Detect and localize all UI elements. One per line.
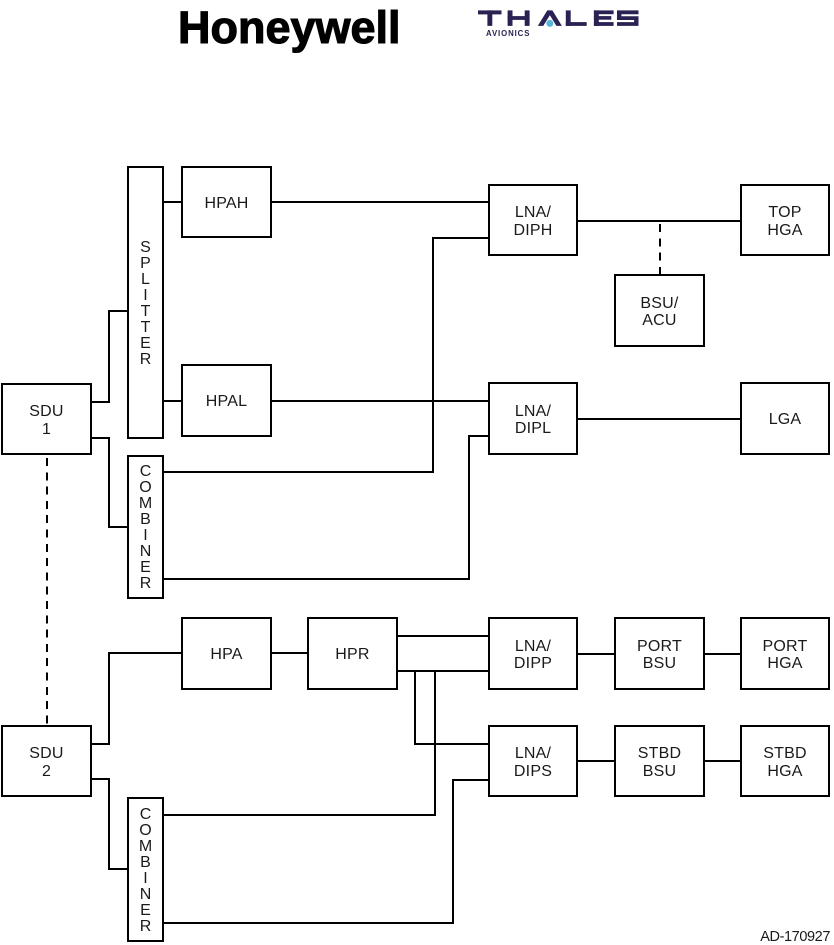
wire into LNA/DIPS lower xyxy=(452,779,488,781)
wire into LNA/DIPS upper xyxy=(414,743,488,745)
block HPR xyxy=(307,617,398,690)
wire COMBINER2 lower output xyxy=(164,922,454,924)
wire COMBINER1 lower output xyxy=(164,578,470,580)
wire PORT BSU to PORT HGA xyxy=(705,653,740,655)
wire into HPA left xyxy=(108,652,181,654)
wire LNA/DIPH to TOP HGA xyxy=(578,220,740,222)
wire into COMBINER1 left xyxy=(108,526,127,528)
wire SDU1 riser to SPLITTER xyxy=(108,310,110,402)
figure number AD-170927 xyxy=(760,930,830,945)
block SPLITTER xyxy=(127,166,164,439)
letter L xyxy=(566,10,571,26)
wire into COMBINER2 left xyxy=(108,868,127,870)
wire COMBINER1 lower riser xyxy=(468,435,470,581)
block HPA xyxy=(181,617,272,690)
wire SDU2 lower stub xyxy=(92,778,110,780)
dashed wire SDU1 to SDU2 xyxy=(46,458,48,725)
wire SDU2 riser to COMBINER2 xyxy=(108,778,110,870)
wire COMBINER2 upper output xyxy=(164,814,436,816)
wire HPR upper output to LNA/DIPP xyxy=(398,635,488,637)
wire SPLITTER to HPAH xyxy=(164,201,181,203)
wire COMBINER1 upper riser xyxy=(432,237,434,473)
wire LNA/DIPP to PORT BSU xyxy=(578,653,614,655)
block STBD BSU xyxy=(614,725,705,797)
dashed wire to BSU/ACU xyxy=(659,224,661,275)
wire SDU2 upper stub xyxy=(92,743,110,745)
letter S xyxy=(617,10,639,26)
wire SDU1 riser to COMBINER1 xyxy=(108,437,110,528)
wire COMBINER1 to LNA/DIPL xyxy=(468,435,488,437)
wire HPA to HPR xyxy=(272,652,307,654)
wire COMBINER2 upper riser xyxy=(434,670,436,815)
wire STBD BSU to STBD HGA xyxy=(705,760,740,762)
block BSU/ACU xyxy=(614,274,705,347)
letter E xyxy=(594,10,599,26)
letter T xyxy=(478,10,502,14)
wire HPAH to LNA/DIPH xyxy=(272,201,488,203)
wire SDU1 upper stub xyxy=(92,401,110,403)
block LNA/DIPS xyxy=(488,725,578,797)
block COMBINER 2 xyxy=(127,797,164,942)
Thales logo xyxy=(470,2,650,46)
block HPAH xyxy=(181,166,272,238)
letter A caret xyxy=(538,10,562,26)
wire HPR lower output to LNA/DIPP xyxy=(398,670,488,672)
wire into SPLITTER left xyxy=(108,310,127,312)
Honeywell logo xyxy=(178,5,401,50)
block PORT HGA xyxy=(740,617,830,690)
block SDU 1 xyxy=(1,383,92,455)
wire SDU2 riser to HPA xyxy=(108,652,110,744)
block TOP HGA xyxy=(740,184,830,256)
wire LNA/DIPS to STBD BSU xyxy=(578,760,614,762)
wire HPR riser to LNA/DIPS xyxy=(414,670,416,744)
block PORT BSU xyxy=(614,617,705,690)
Thales blue dot xyxy=(546,20,553,27)
block HPAL xyxy=(181,364,272,437)
wire LNA/DIPL to LGA xyxy=(578,418,740,420)
block STBD HGA xyxy=(740,725,830,797)
letter H xyxy=(508,10,513,26)
wire SPLITTER to HPAL xyxy=(164,400,181,402)
wire COMBINER2 lower riser xyxy=(452,779,454,924)
block LGA xyxy=(740,382,830,455)
wire HPAL to LNA/DIPL xyxy=(272,400,488,402)
block COMBINER 1 xyxy=(127,455,164,599)
wire COMBINER1 to LNA/DIPH xyxy=(432,237,488,239)
wire SDU1 lower stub xyxy=(92,437,110,439)
block SDU 2 xyxy=(1,725,92,797)
block LNA/DIPH xyxy=(488,184,578,256)
block LNA/DIPL xyxy=(488,382,578,455)
Thales AVIONICS text xyxy=(486,30,530,38)
wire COMBINER1 upper output xyxy=(164,471,434,473)
block LNA/DIPP xyxy=(488,617,578,690)
